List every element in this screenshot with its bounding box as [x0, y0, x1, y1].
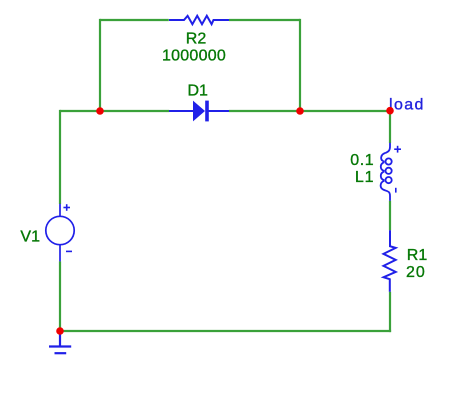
svg-text:R2: R2 [186, 30, 207, 47]
node junction dot load [386, 107, 394, 115]
L1 minus mark (rotated tick) [395, 188, 397, 193]
wire bottom [60, 330, 391, 332]
inductor L1 [381, 143, 392, 201]
resistor R1 [384, 230, 396, 291]
resistor R2 [169, 16, 229, 24]
wire top-right segment [229, 19, 300, 21]
diode D1 [169, 101, 229, 122]
node junction dot ground [56, 327, 64, 335]
svg-text:V1: V1 [20, 228, 40, 245]
wire right vertical lower (R1 down) [389, 292, 391, 332]
V1 minus mark [66, 250, 72, 252]
wire left branch vertical [99, 19, 101, 111]
svg-text:R1: R1 [407, 247, 428, 264]
svg-text:D1: D1 [188, 83, 209, 100]
node junction dot right [296, 107, 304, 115]
svg-text:L1: L1 [355, 169, 374, 186]
svg-text:load: load [389, 96, 425, 113]
svg-text:1000000: 1000000 [162, 47, 226, 64]
svg-text:0.1: 0.1 [350, 152, 374, 169]
svg-text:20: 20 [406, 264, 426, 281]
node junction dot left [96, 107, 104, 115]
wire left vertical upper (to V1) [59, 110, 61, 204]
L1 plus mark [394, 146, 401, 153]
wire middle-right segment [229, 110, 390, 112]
wire right vertical middle (L1 to R1) [389, 201, 391, 231]
wire left vertical lower (V1 to ground) [59, 261, 61, 331]
wire right vertical upper (load to L1) [389, 111, 391, 143]
wire right branch vertical [299, 19, 301, 111]
wire top-left segment [100, 19, 169, 21]
ground [49, 331, 71, 353]
V1 plus mark [63, 204, 70, 211]
voltage source V1 [46, 204, 74, 262]
wire middle-left segment [60, 110, 169, 112]
